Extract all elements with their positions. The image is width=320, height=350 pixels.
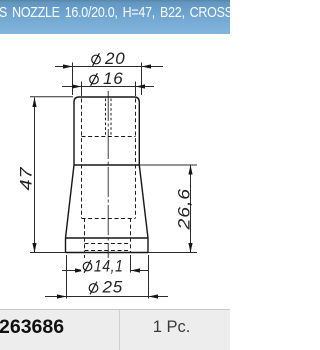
technical drawing	[0, 0, 230, 350]
arrow d25 right	[149, 294, 159, 298]
dim line d14.1 stubs	[62, 270, 148, 272]
arrow d14.1 right	[131, 268, 141, 272]
flange	[66, 238, 149, 253]
taper right	[139, 165, 148, 238]
dim line d25	[45, 296, 168, 298]
arrow d25 left	[57, 294, 67, 298]
hidden bore d14.1 right	[130, 218, 132, 252]
hidden line bottom recess	[85, 250, 131, 252]
arrow 47 top	[32, 98, 36, 108]
centerline	[107, 91, 109, 258]
svg-text:20: 20	[104, 49, 126, 68]
extension lines d16	[82, 82, 136, 97]
arrow d20 left	[63, 64, 73, 68]
arrow d16 right	[136, 84, 146, 88]
label d16	[90, 69, 124, 88]
header bar	[0, 0, 230, 34]
arrow d20 right	[142, 64, 152, 68]
label d14.1	[81, 257, 126, 276]
label d25	[89, 278, 123, 297]
junction line	[74, 164, 139, 166]
svg-text:14,1: 14,1	[94, 257, 124, 276]
nozzle outline: cap cylinder	[74, 97, 139, 165]
label d20	[92, 49, 126, 68]
hidden line step2	[85, 243, 131, 245]
extension lines bottom face	[30, 252, 197, 254]
extension lines d14.1	[85, 255, 131, 273]
hidden bore d14.1 left	[84, 218, 86, 252]
extension lines d20	[73, 63, 142, 96]
hidden slit left	[105, 99, 107, 137]
hidden line slit bottom	[82, 136, 136, 138]
dim line 47	[34, 98, 36, 253]
dim line d16	[62, 86, 154, 88]
hidden line bore step	[82, 218, 136, 220]
extension lines d25	[67, 255, 149, 299]
arrow d14.1 left	[75, 268, 85, 272]
svg-text:26,6: 26,6	[175, 188, 194, 231]
hidden slit right	[110, 99, 112, 137]
arrow 26.6 bottom	[188, 243, 192, 253]
hidden bore d16 right	[135, 99, 137, 219]
arrow 47 bottom	[32, 243, 36, 253]
arrow 26.6 top	[188, 165, 192, 175]
footer table	[0, 309, 230, 350]
svg-text:47: 47	[17, 167, 36, 191]
extension line 26.6 top	[139, 164, 197, 166]
dim line 26.6	[190, 165, 192, 253]
dim line d20	[55, 66, 163, 68]
svg-text:25: 25	[102, 278, 124, 297]
taper left	[66, 165, 75, 238]
extension line 47 top	[30, 96, 73, 98]
hidden bore d16 left	[81, 99, 83, 219]
svg-text:16: 16	[103, 69, 124, 88]
arrow d16 left	[72, 84, 82, 88]
